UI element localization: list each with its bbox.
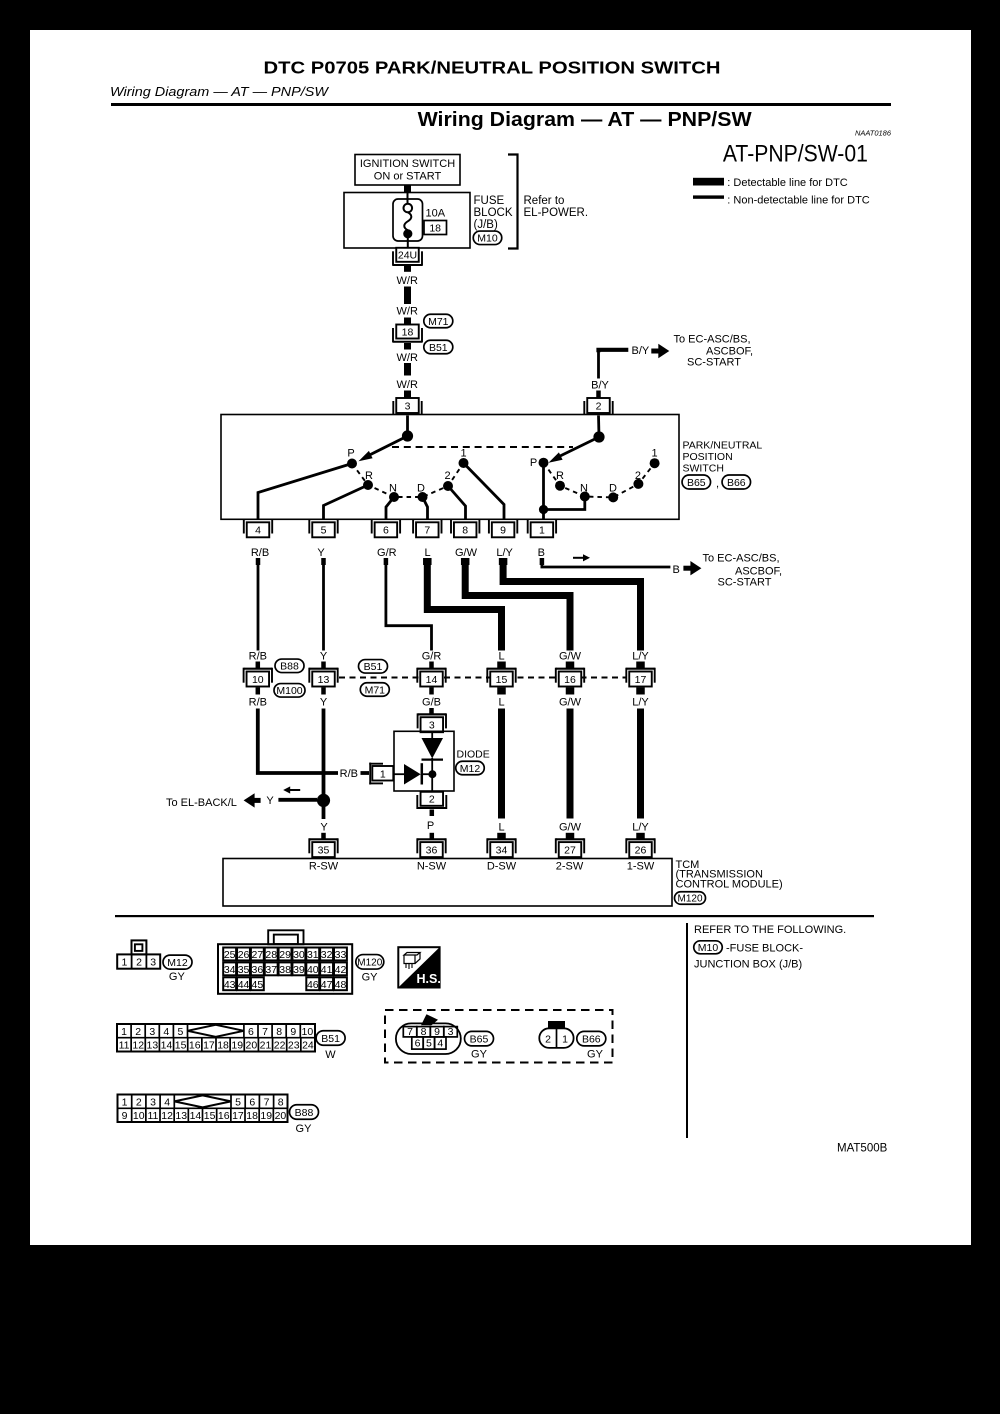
svg-text:1: 1 — [539, 525, 545, 537]
svg-text:M120: M120 — [357, 957, 382, 968]
svg-text:M12: M12 — [167, 957, 188, 969]
svg-text:34: 34 — [496, 844, 508, 856]
svg-text:14: 14 — [190, 1110, 202, 1122]
svg-text:B88: B88 — [295, 1107, 314, 1119]
svg-text:31: 31 — [307, 949, 319, 961]
svg-text:28: 28 — [265, 949, 277, 961]
svg-text:1: 1 — [562, 1033, 568, 1045]
svg-text:1: 1 — [380, 769, 386, 781]
svg-text:Wiring Diagram — AT — PNP/SW: Wiring Diagram — AT — PNP/SW — [418, 109, 752, 131]
svg-text:27: 27 — [564, 844, 576, 856]
svg-text:B/Y: B/Y — [632, 345, 650, 357]
svg-text:17: 17 — [232, 1110, 244, 1122]
svg-text:39: 39 — [293, 964, 305, 976]
svg-text:N-SW: N-SW — [417, 861, 447, 873]
svg-text:1: 1 — [121, 1026, 127, 1038]
svg-text:B: B — [538, 547, 545, 559]
svg-text:10: 10 — [252, 674, 264, 686]
svg-text:,: , — [716, 478, 719, 490]
svg-text:L: L — [498, 697, 504, 709]
svg-text:PARK/NEUTRAL: PARK/NEUTRAL — [683, 440, 763, 452]
svg-text:47: 47 — [321, 979, 333, 991]
svg-text:18: 18 — [402, 326, 414, 338]
svg-text:DIODE: DIODE — [457, 749, 490, 761]
svg-text:G/B: G/B — [422, 697, 441, 709]
svg-text:M10: M10 — [698, 942, 719, 954]
svg-text:EL-POWER.: EL-POWER. — [524, 207, 589, 219]
svg-text:5: 5 — [178, 1026, 184, 1038]
svg-text:1-SW: 1-SW — [627, 861, 655, 873]
svg-text:3: 3 — [150, 957, 156, 969]
svg-text:L: L — [498, 822, 504, 834]
svg-text:13: 13 — [175, 1110, 187, 1122]
svg-text:JUNCTION BOX (J/B): JUNCTION BOX (J/B) — [694, 958, 802, 970]
svg-text:AT-PNP/SW-01: AT-PNP/SW-01 — [723, 141, 868, 168]
svg-text:2: 2 — [136, 1097, 142, 1109]
svg-text:4: 4 — [255, 525, 261, 537]
svg-text:44: 44 — [238, 979, 250, 991]
svg-text:Y: Y — [266, 795, 274, 807]
svg-text:R/B: R/B — [249, 650, 267, 662]
svg-text:6: 6 — [248, 1026, 254, 1038]
svg-text:B65: B65 — [470, 1033, 489, 1045]
svg-text:16: 16 — [218, 1110, 230, 1122]
svg-text:: Non-detectable line for DTC: : Non-detectable line for DTC — [727, 195, 870, 207]
svg-text:M71: M71 — [428, 316, 449, 328]
svg-text:25: 25 — [224, 949, 236, 961]
svg-text:(J/B): (J/B) — [474, 219, 498, 231]
svg-text:6: 6 — [249, 1097, 255, 1109]
svg-text:9: 9 — [500, 525, 506, 537]
svg-text:1: 1 — [121, 957, 127, 969]
svg-text:Y: Y — [320, 697, 328, 709]
svg-text:D: D — [609, 483, 617, 495]
svg-text:1: 1 — [460, 448, 466, 460]
svg-text:L/Y: L/Y — [632, 650, 649, 662]
svg-text:8: 8 — [278, 1097, 284, 1109]
svg-text:B88: B88 — [280, 661, 299, 673]
svg-text:W/R: W/R — [397, 379, 418, 391]
svg-text:20: 20 — [246, 1040, 258, 1052]
svg-text:R/B: R/B — [251, 547, 269, 559]
svg-text:N: N — [580, 483, 588, 495]
svg-text:24U: 24U — [398, 250, 417, 262]
svg-text:POSITION: POSITION — [683, 451, 733, 463]
svg-text:32: 32 — [321, 949, 333, 961]
svg-text:11: 11 — [147, 1110, 158, 1122]
svg-text:5: 5 — [426, 1037, 432, 1049]
svg-text:35: 35 — [238, 964, 250, 976]
svg-text:IGNITION SWITCH: IGNITION SWITCH — [360, 158, 455, 170]
svg-text:CONTROL MODULE): CONTROL MODULE) — [676, 878, 783, 890]
svg-text:2: 2 — [545, 1033, 551, 1045]
svg-text:R: R — [556, 470, 564, 482]
svg-text:24: 24 — [302, 1040, 314, 1052]
svg-text:L: L — [424, 547, 430, 559]
svg-text:18: 18 — [217, 1040, 229, 1052]
svg-text:7: 7 — [264, 1097, 270, 1109]
svg-text:22: 22 — [274, 1040, 286, 1052]
svg-text:10A: 10A — [426, 208, 446, 220]
svg-text:37: 37 — [265, 964, 277, 976]
svg-text:15: 15 — [496, 674, 508, 686]
svg-text:2: 2 — [429, 794, 435, 806]
svg-text:GY: GY — [296, 1123, 313, 1135]
svg-text:DTC P0705 PARK/NEUTRAL POSITIO: DTC P0705 PARK/NEUTRAL POSITION SWITCH — [264, 58, 721, 78]
svg-text:18: 18 — [429, 223, 441, 235]
svg-text:29: 29 — [279, 949, 291, 961]
svg-text:9: 9 — [290, 1026, 296, 1038]
svg-text:L/Y: L/Y — [632, 697, 649, 709]
svg-text:14: 14 — [161, 1040, 173, 1052]
svg-text:SC-START: SC-START — [687, 357, 741, 369]
svg-text:17: 17 — [635, 674, 647, 686]
svg-text:G/W: G/W — [559, 697, 582, 709]
svg-text:4: 4 — [437, 1037, 443, 1049]
svg-text:9: 9 — [122, 1110, 128, 1122]
svg-text:Y: Y — [320, 650, 328, 662]
svg-text:8: 8 — [462, 525, 468, 537]
svg-text:B/Y: B/Y — [591, 380, 609, 392]
svg-text:21: 21 — [260, 1040, 272, 1052]
svg-text:10: 10 — [133, 1110, 145, 1122]
svg-text:G/R: G/R — [422, 650, 442, 662]
svg-text:26: 26 — [238, 949, 250, 961]
svg-text:-FUSE BLOCK-: -FUSE BLOCK- — [726, 942, 803, 954]
svg-text:2: 2 — [635, 470, 641, 482]
svg-text:W/R: W/R — [397, 275, 418, 287]
svg-text:3: 3 — [405, 400, 411, 412]
svg-text:6: 6 — [383, 525, 389, 537]
svg-text:27: 27 — [252, 949, 264, 961]
svg-text:P: P — [347, 448, 354, 460]
svg-text:45: 45 — [252, 979, 264, 991]
svg-text:42: 42 — [335, 964, 347, 976]
svg-text:3: 3 — [149, 1026, 155, 1038]
svg-text:W/R: W/R — [397, 305, 418, 317]
svg-text:40: 40 — [307, 964, 319, 976]
svg-text:To EL-BACK/L: To EL-BACK/L — [166, 797, 237, 809]
svg-text:G/W: G/W — [559, 650, 582, 662]
svg-text:12: 12 — [132, 1040, 144, 1052]
svg-text:Y: Y — [317, 547, 325, 559]
svg-text:B66: B66 — [582, 1033, 601, 1045]
svg-text:BLOCK: BLOCK — [474, 207, 513, 219]
svg-text:2: 2 — [444, 470, 450, 482]
svg-text:19: 19 — [231, 1040, 243, 1052]
svg-text:: Detectable line for DTC: : Detectable line for DTC — [727, 177, 847, 189]
svg-text:REFER TO THE FOLLOWING.: REFER TO THE FOLLOWING. — [694, 924, 846, 936]
svg-text:46: 46 — [307, 979, 319, 991]
svg-text:2: 2 — [135, 1026, 141, 1038]
svg-text:B51: B51 — [429, 342, 448, 354]
svg-text:ON or START: ON or START — [374, 171, 442, 183]
svg-text:20: 20 — [275, 1110, 287, 1122]
svg-text:To EC-ASC/BS,: To EC-ASC/BS, — [703, 552, 780, 564]
svg-text:SWITCH: SWITCH — [683, 462, 724, 474]
svg-text:33: 33 — [335, 949, 347, 961]
svg-text:GY: GY — [471, 1049, 488, 1061]
svg-text:13: 13 — [147, 1040, 159, 1052]
svg-text:34: 34 — [224, 964, 236, 976]
svg-text:11: 11 — [119, 1040, 130, 1052]
svg-text:16: 16 — [189, 1040, 201, 1052]
svg-text:D: D — [417, 483, 425, 495]
svg-text:18: 18 — [246, 1110, 258, 1122]
svg-text:W/R: W/R — [397, 352, 418, 364]
svg-text:41: 41 — [321, 964, 333, 976]
svg-text:35: 35 — [318, 844, 330, 856]
svg-text:43: 43 — [224, 979, 236, 991]
svg-text:3: 3 — [429, 719, 435, 731]
svg-text:12: 12 — [161, 1110, 173, 1122]
svg-text:N: N — [389, 483, 397, 495]
svg-text:7: 7 — [424, 525, 430, 537]
svg-text:B66: B66 — [727, 477, 746, 489]
svg-text:P: P — [530, 457, 537, 469]
svg-text:R/B: R/B — [340, 768, 358, 780]
svg-text:M10: M10 — [477, 233, 498, 245]
svg-text:R: R — [365, 470, 373, 482]
svg-text:H.S.: H.S. — [417, 972, 441, 986]
svg-text:G/W: G/W — [455, 547, 478, 559]
svg-text:14: 14 — [426, 674, 438, 686]
svg-text:M12: M12 — [460, 763, 481, 775]
svg-text:1: 1 — [122, 1097, 128, 1109]
svg-text:4: 4 — [164, 1097, 170, 1109]
svg-text:48: 48 — [335, 979, 347, 991]
svg-text:R-SW: R-SW — [309, 861, 339, 873]
svg-text:8: 8 — [276, 1026, 282, 1038]
svg-text:19: 19 — [260, 1110, 272, 1122]
svg-text:NAAT0186: NAAT0186 — [855, 129, 892, 138]
svg-text:B51: B51 — [364, 661, 383, 673]
svg-text:M100: M100 — [276, 685, 302, 697]
svg-text:38: 38 — [279, 964, 291, 976]
svg-text:B51: B51 — [321, 1033, 340, 1045]
svg-text:L/Y: L/Y — [496, 547, 513, 559]
svg-text:26: 26 — [635, 844, 647, 856]
svg-text:L/Y: L/Y — [632, 822, 649, 834]
svg-text:15: 15 — [204, 1110, 216, 1122]
svg-text:2: 2 — [136, 957, 142, 969]
svg-text:1: 1 — [651, 448, 657, 460]
svg-text:L: L — [498, 650, 504, 662]
svg-text:5: 5 — [321, 525, 327, 537]
svg-text:5: 5 — [235, 1097, 241, 1109]
svg-text:7: 7 — [262, 1026, 268, 1038]
svg-text:16: 16 — [564, 674, 576, 686]
svg-text:B: B — [673, 564, 680, 576]
svg-text:M71: M71 — [365, 684, 386, 696]
svg-text:Wiring Diagram — AT — PNP/SW: Wiring Diagram — AT — PNP/SW — [110, 85, 329, 99]
svg-text:4: 4 — [163, 1026, 169, 1038]
svg-text:13: 13 — [318, 674, 330, 686]
svg-text:36: 36 — [252, 964, 264, 976]
svg-text:W: W — [325, 1049, 336, 1061]
svg-text:To EC-ASC/BS,: To EC-ASC/BS, — [674, 333, 751, 345]
svg-text:2: 2 — [596, 400, 602, 412]
svg-text:FUSE: FUSE — [474, 195, 505, 207]
svg-text:10: 10 — [302, 1026, 314, 1038]
svg-text:MAT500B: MAT500B — [837, 1143, 888, 1155]
svg-text:P: P — [427, 820, 434, 832]
svg-text:D-SW: D-SW — [487, 861, 517, 873]
svg-text:15: 15 — [175, 1040, 187, 1052]
svg-text:3: 3 — [150, 1097, 156, 1109]
svg-text:G/W: G/W — [559, 822, 582, 834]
svg-text:17: 17 — [203, 1040, 215, 1052]
svg-text:3: 3 — [448, 1026, 454, 1038]
svg-text:6: 6 — [415, 1037, 421, 1049]
svg-text:M120: M120 — [677, 894, 702, 905]
svg-text:B65: B65 — [687, 477, 706, 489]
svg-text:23: 23 — [288, 1040, 300, 1052]
svg-text:SC-START: SC-START — [718, 577, 772, 589]
svg-text:GY: GY — [169, 971, 186, 983]
svg-text:2-SW: 2-SW — [556, 861, 584, 873]
svg-text:R/B: R/B — [249, 697, 267, 709]
svg-text:36: 36 — [426, 844, 438, 856]
svg-text:Y: Y — [320, 822, 328, 834]
svg-text:Refer to: Refer to — [524, 195, 565, 207]
svg-text:GY: GY — [362, 971, 379, 983]
svg-text:GY: GY — [587, 1049, 604, 1061]
svg-text:30: 30 — [293, 949, 305, 961]
svg-text:G/R: G/R — [377, 547, 397, 559]
